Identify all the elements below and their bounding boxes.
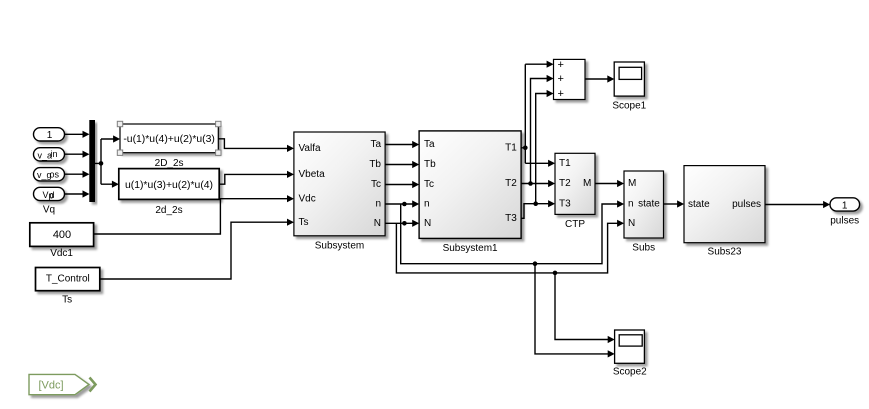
svg-text:Vq: Vq <box>43 205 55 216</box>
svg-text:state: state <box>688 199 710 210</box>
svg-text:M: M <box>583 178 591 189</box>
svg-text:Subsystem: Subsystem <box>315 241 364 252</box>
svg-text:+: + <box>558 88 564 100</box>
svg-text:Valfa: Valfa <box>299 143 321 154</box>
svg-text:Ta: Ta <box>424 139 435 150</box>
svg-text:Scope2: Scope2 <box>613 366 647 377</box>
svg-text:-u(1)*u(4)+u(2)*u(3): -u(1)*u(4)+u(2)*u(3) <box>123 134 215 145</box>
svg-text:CTP: CTP <box>565 219 585 230</box>
svg-text:n: n <box>375 199 381 210</box>
svg-text:T2: T2 <box>505 178 517 189</box>
svg-text:Ts: Ts <box>299 217 309 228</box>
svg-text:1: 1 <box>47 130 53 141</box>
svg-text:T1: T1 <box>559 158 571 169</box>
svg-text:Vdc: Vdc <box>299 193 316 204</box>
svg-text:M: M <box>628 178 636 189</box>
svg-text:Scope1: Scope1 <box>612 101 646 112</box>
svg-text:p: p <box>49 191 54 201</box>
svg-text:T_Control: T_Control <box>46 274 90 285</box>
svg-text:n: n <box>628 199 634 210</box>
svg-text:[Vdc]: [Vdc] <box>38 379 63 391</box>
svg-text:pulses: pulses <box>830 216 859 227</box>
svg-text:u(1)*u(3)+u(2)*u(4): u(1)*u(3)+u(2)*u(4) <box>125 180 213 191</box>
svg-text:Tb: Tb <box>369 159 381 170</box>
svg-text:N: N <box>374 218 381 229</box>
svg-text:in: in <box>51 149 58 159</box>
svg-text:Subsystem1: Subsystem1 <box>443 243 498 254</box>
svg-text:2d_2s: 2d_2s <box>155 205 182 216</box>
svg-text:+: + <box>558 73 564 85</box>
svg-text:T3: T3 <box>559 198 571 209</box>
svg-text:Subs: Subs <box>632 242 655 253</box>
svg-text:n: n <box>424 199 430 210</box>
svg-text:T3: T3 <box>505 213 517 224</box>
svg-text:state: state <box>638 199 660 210</box>
svg-text:Ts: Ts <box>62 294 72 305</box>
svg-text:Tc: Tc <box>424 179 434 190</box>
svg-text:Vdc1: Vdc1 <box>50 248 73 259</box>
svg-text:os: os <box>50 169 60 179</box>
svg-text:Subs23: Subs23 <box>708 246 742 257</box>
svg-text:Tc: Tc <box>371 179 381 190</box>
svg-text:Vbeta: Vbeta <box>299 169 326 180</box>
svg-text:pulses: pulses <box>732 199 761 210</box>
svg-text:+: + <box>558 59 564 71</box>
svg-text:1: 1 <box>842 200 848 211</box>
svg-text:2D_2s: 2D_2s <box>155 158 184 169</box>
svg-text:T1: T1 <box>505 143 517 154</box>
svg-text:N: N <box>628 218 635 229</box>
svg-text:N: N <box>424 218 431 229</box>
svg-text:Ta: Ta <box>370 139 381 150</box>
svg-text:400: 400 <box>53 229 71 241</box>
svg-text:Tb: Tb <box>424 159 436 170</box>
svg-text:T2: T2 <box>559 178 571 189</box>
